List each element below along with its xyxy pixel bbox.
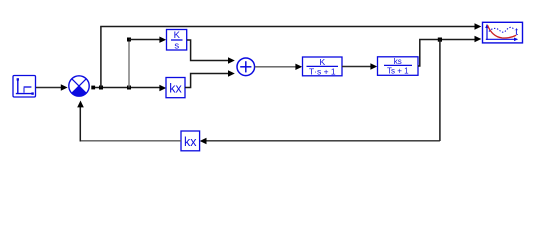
wire feedback drop — [439, 40, 441, 142]
junction node D (feedback tap) — [438, 38, 442, 42]
svg-text:T·s + 1: T·s + 1 — [309, 66, 336, 76]
transfer function block K/(T·s+1) — [303, 57, 343, 76]
wire feedback gain output to summing junction — [77, 101, 181, 142]
wire summer to transfer function 1 — [255, 64, 302, 70]
svg-text:Ts + 1: Ts + 1 — [387, 67, 409, 76]
integrator block K/s — [167, 30, 187, 52]
wire gain kx output to summer — [185, 70, 235, 87]
wire riser to integrator branch — [128, 40, 130, 88]
wire riser to top rail — [100, 27, 102, 88]
svg-text:kx: kx — [169, 82, 182, 96]
wire top rail to scope input 1 — [100, 23, 481, 29]
wire transfer function 2 output to scope input 2 — [418, 36, 481, 66]
junction node B — [127, 86, 131, 90]
summer (circle with plus) — [237, 58, 255, 76]
scope block — [483, 22, 523, 43]
output port marker of summing junction — [91, 86, 95, 90]
svg-text:t: t — [515, 26, 518, 38]
wire step to summing junction — [36, 84, 68, 90]
summing junction 1 (circle with X, filled lower sector) — [69, 76, 89, 96]
wire branch to integrator K/s — [129, 37, 166, 43]
wire transfer function 1 to transfer function 2 — [342, 63, 377, 69]
step input block — [13, 76, 36, 98]
wire feedback to gain kx (bottom) — [200, 138, 440, 144]
transfer function block ks/(Ts+1) — [378, 57, 419, 76]
wire summing junction to gain kx (main forward line) — [95, 85, 166, 91]
gain block kx (middle) — [166, 78, 185, 98]
junction node C — [127, 38, 131, 42]
svg-text:kx: kx — [184, 135, 197, 149]
feedback gain block kx — [181, 131, 200, 151]
junction node A — [99, 86, 103, 90]
svg-text:s: s — [174, 40, 179, 51]
wire integrator output to summer — [187, 40, 235, 64]
